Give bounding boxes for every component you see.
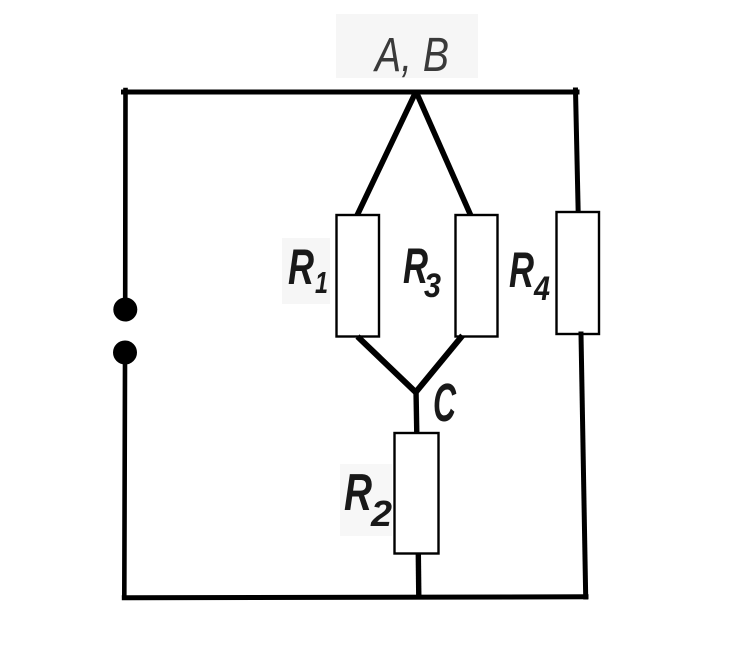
svg-text:A, B: A, B (373, 29, 449, 82)
wire left side upper segment (top-left corner down to upper terminal) (123, 90, 128, 298)
svg-text:4: 4 (533, 270, 550, 308)
wire diagonal from node A,B down-left to R1 (357, 92, 416, 217)
resistor R4 body (557, 212, 600, 334)
svg-text:R: R (288, 239, 314, 295)
resistor R1 body (337, 215, 380, 337)
svg-text:3: 3 (424, 267, 441, 305)
terminal dot lower (113, 341, 137, 365)
wire from R2 down to bottom rail (416, 553, 422, 598)
wire top rail from left corner to right corner through node A,B (124, 90, 578, 95)
resistor R2 body (395, 433, 439, 554)
wire right side lower segment (R4 down to bottom-right corner) (581, 334, 586, 597)
terminal dot upper (113, 298, 137, 322)
label R3 (403, 238, 441, 305)
svg-text:R: R (509, 242, 534, 298)
wire diagonal from node A,B down-right to R3 (416, 92, 471, 217)
wire diagonal from R1 down-right to node C (358, 337, 417, 393)
label A,B (node name at top junction) (336, 14, 478, 82)
wire right side upper segment (top-right corner down to R4) (576, 90, 579, 213)
label R2 (340, 464, 392, 536)
resistor R3 body (456, 215, 498, 337)
svg-text:R: R (344, 464, 372, 522)
label R1 (282, 238, 330, 304)
wire bottom rail (bottom-left corner to bottom-right corner) (124, 597, 586, 598)
svg-text:1: 1 (315, 265, 328, 300)
svg-text:2: 2 (370, 493, 392, 534)
svg-text:C: C (433, 373, 457, 433)
label R4 (509, 242, 550, 308)
wire diagonal from R3 down-left to node C (416, 336, 463, 393)
wire left side lower segment (lower terminal down to bottom-left corner) (122, 364, 127, 597)
wire from node C down to R2 (413, 390, 419, 434)
